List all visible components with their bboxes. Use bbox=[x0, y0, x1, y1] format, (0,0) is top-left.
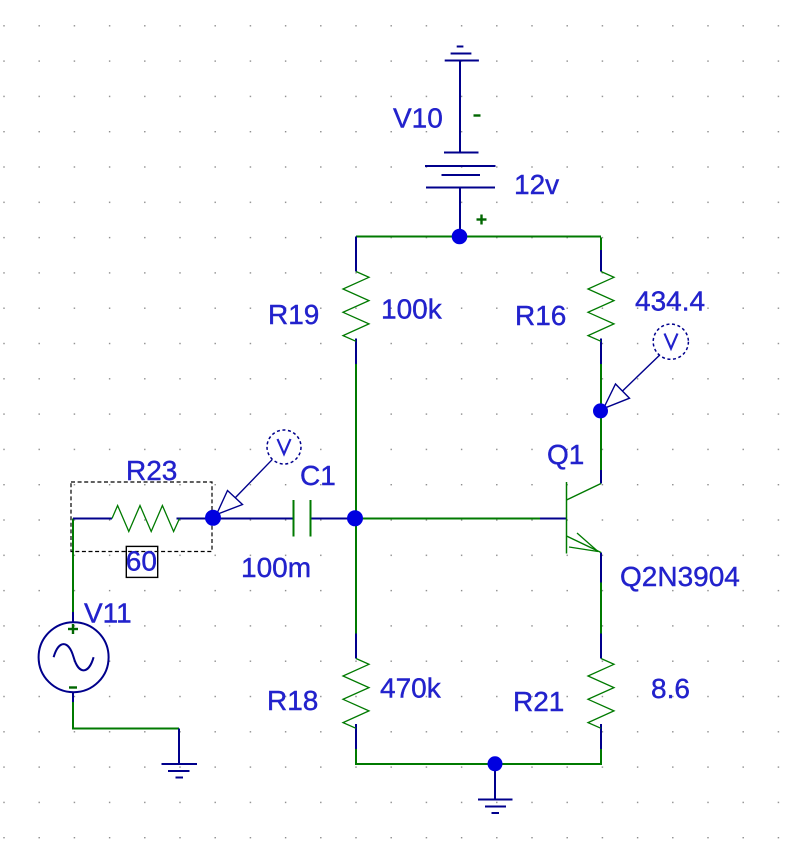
svg-text:R18: R18 bbox=[267, 685, 318, 716]
svg-text:V11: V11 bbox=[84, 598, 132, 629]
svg-text:C1: C1 bbox=[300, 460, 336, 491]
svg-text:V10: V10 bbox=[393, 103, 443, 134]
svg-text:8.6: 8.6 bbox=[651, 673, 690, 704]
svg-text:434.4: 434.4 bbox=[635, 286, 705, 317]
svg-text:R23: R23 bbox=[126, 455, 177, 486]
svg-text:470k: 470k bbox=[380, 673, 442, 704]
svg-text:100k: 100k bbox=[381, 294, 443, 325]
svg-text:R19: R19 bbox=[268, 299, 319, 330]
svg-text:Q1: Q1 bbox=[547, 439, 584, 470]
svg-text:R21: R21 bbox=[513, 686, 564, 717]
svg-text:100m: 100m bbox=[241, 552, 311, 583]
svg-text:R16: R16 bbox=[515, 300, 566, 331]
svg-text:60: 60 bbox=[126, 546, 157, 577]
svg-text:12v: 12v bbox=[514, 169, 559, 200]
svg-text:Q2N3904: Q2N3904 bbox=[620, 561, 740, 592]
